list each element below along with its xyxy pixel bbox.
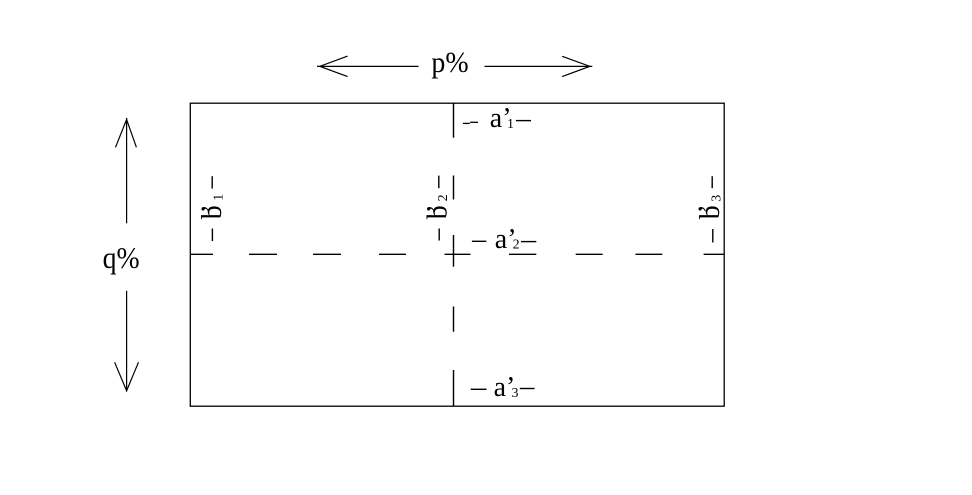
- label a'2: [472, 224, 536, 255]
- vertical dashed centerline: [453, 104, 455, 406]
- svg-text:1: 1: [211, 194, 226, 201]
- arrow q% (vertical double arrow): [115, 118, 139, 391]
- svg-text:2: 2: [513, 237, 520, 252]
- svg-text:q%: q%: [103, 241, 140, 275]
- svg-text:’: ’: [196, 204, 227, 213]
- label a'1: [463, 103, 531, 134]
- svg-text:3: 3: [512, 386, 519, 401]
- svg-text:’: ’: [693, 204, 724, 213]
- arrow p% (horizontal double arrow): [317, 56, 592, 77]
- svg-text:3: 3: [710, 195, 725, 202]
- label b'2 (rotated): [422, 176, 453, 241]
- label a'3: [471, 372, 535, 403]
- horizontal dashed centerline: [191, 253, 724, 255]
- rectangle (image frame): [190, 103, 724, 406]
- label b'1 (rotated): [196, 176, 227, 241]
- svg-text:’: ’: [422, 204, 453, 213]
- svg-text:2: 2: [436, 194, 451, 201]
- label b'3 (rotated): [693, 176, 726, 242]
- svg-text:p%: p%: [431, 46, 468, 79]
- svg-text:1: 1: [507, 117, 514, 132]
